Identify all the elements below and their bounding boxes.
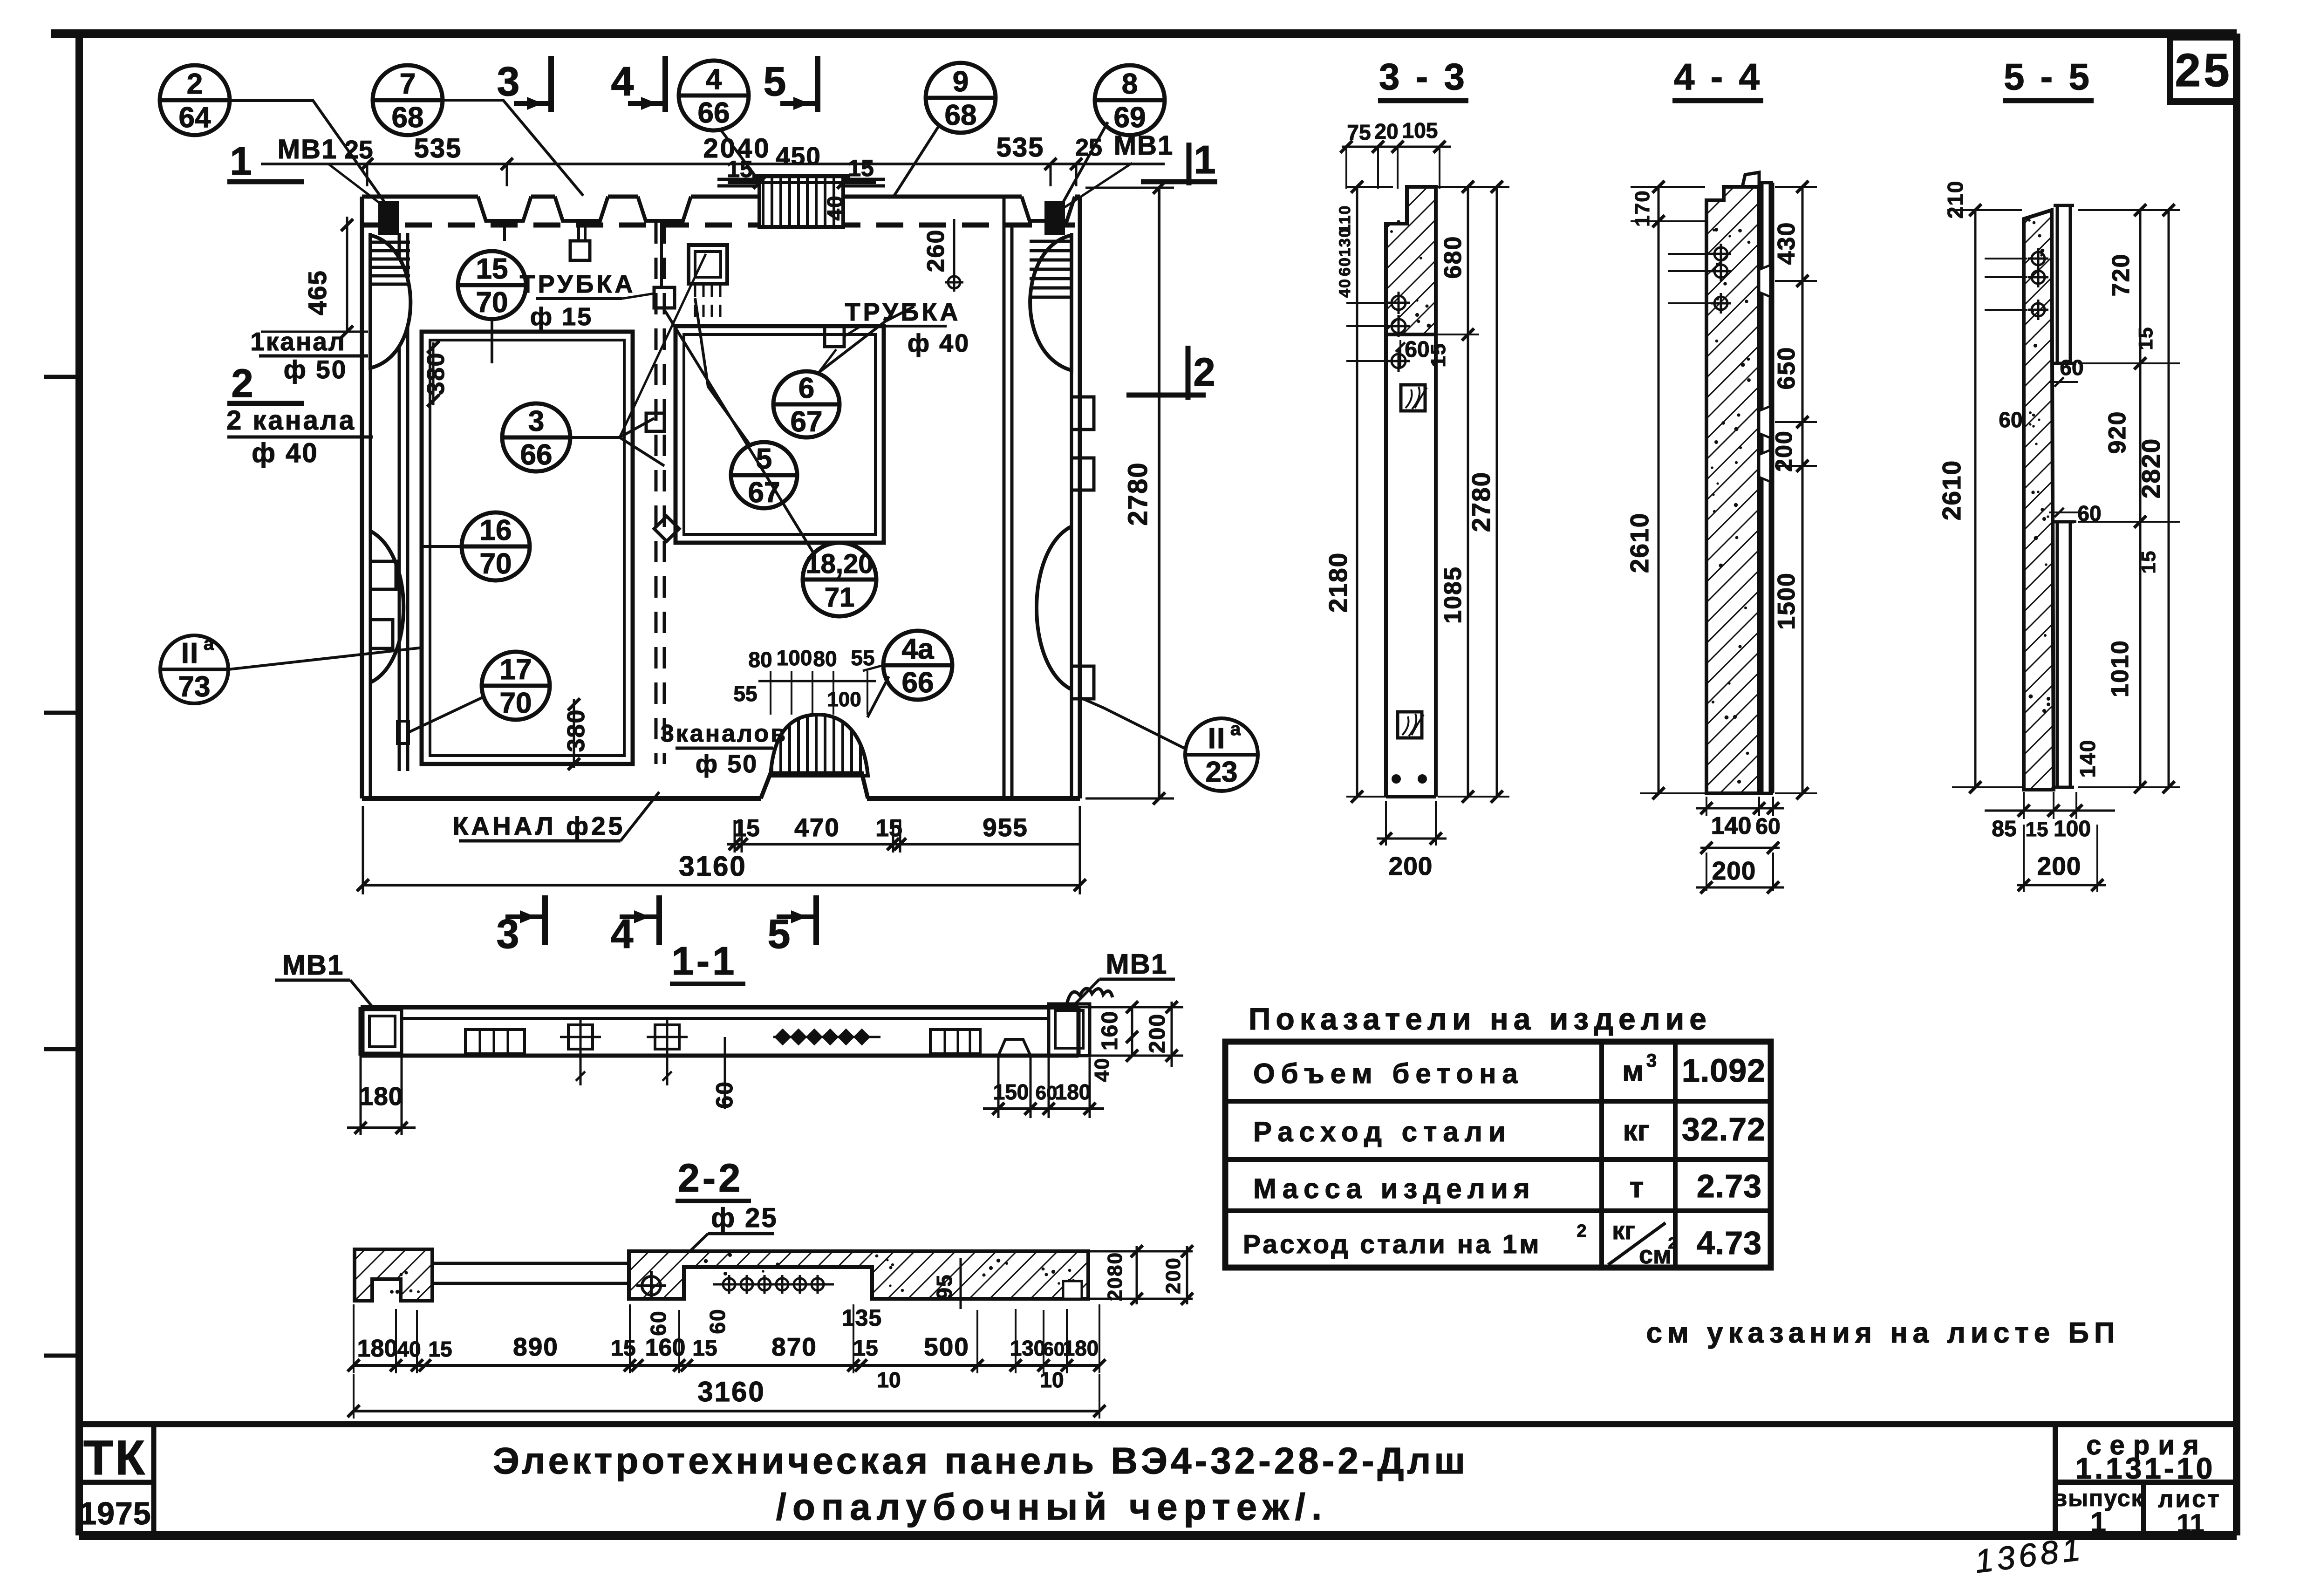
svg-text:1.131-10: 1.131-10 [2075, 1452, 2216, 1485]
svg-text:100: 100 [2054, 817, 2091, 841]
svg-text:15: 15 [733, 815, 760, 842]
svg-text:м: м [1622, 1055, 1644, 1087]
svg-text:см: см [1639, 1241, 1672, 1269]
svg-text:200: 200 [1162, 1257, 1185, 1294]
svg-text:9: 9 [953, 66, 969, 98]
svg-text:535: 535 [996, 132, 1044, 163]
svg-text:11: 11 [2177, 1508, 2204, 1538]
svg-text:2: 2 [1577, 1221, 1586, 1241]
svg-text:60: 60 [646, 1310, 670, 1336]
svg-text:Объем бетона: Объем бетона [1253, 1058, 1524, 1089]
svg-text:68: 68 [945, 99, 977, 131]
svg-text:ф 40: ф 40 [908, 329, 970, 357]
svg-text:10: 10 [877, 1368, 901, 1392]
svg-text:70: 70 [480, 548, 512, 580]
svg-text:40: 40 [397, 1337, 421, 1361]
svg-text:ф 15: ф 15 [530, 303, 593, 331]
svg-text:1.092: 1.092 [1682, 1052, 1766, 1089]
svg-text:130: 130 [1010, 1336, 1046, 1360]
svg-text:Масса изделия: Масса изделия [1253, 1173, 1536, 1204]
svg-text:71: 71 [825, 582, 855, 613]
svg-text:180: 180 [1063, 1336, 1099, 1360]
svg-text:680: 680 [1440, 236, 1467, 279]
svg-text:см указания на листе БП: см указания на листе БП [1646, 1317, 2120, 1349]
svg-text:955: 955 [983, 813, 1028, 842]
svg-text:8: 8 [1122, 68, 1138, 100]
svg-text:465: 465 [303, 270, 332, 315]
svg-text:МВ1: МВ1 [282, 949, 344, 981]
svg-text:70: 70 [476, 286, 508, 319]
svg-text:МВ1: МВ1 [278, 134, 337, 164]
svg-text:10: 10 [1040, 1368, 1064, 1392]
svg-text:15: 15 [1427, 343, 1450, 368]
svg-text:2780: 2780 [1123, 462, 1153, 525]
svg-text:75: 75 [1347, 120, 1371, 144]
svg-text:15: 15 [692, 1336, 717, 1361]
svg-text:Электротехническая панель ВЭ: Электротехническая панель ВЭ4-32-28-2-Дл… [493, 1440, 1468, 1481]
svg-text:200: 200 [1712, 856, 1756, 885]
svg-text:Показатели на изделие: Показатели на изделие [1249, 1002, 1712, 1036]
svg-text:40: 40 [823, 195, 847, 220]
svg-text:а: а [1230, 719, 1241, 739]
svg-text:15: 15 [428, 1337, 452, 1361]
svg-text:3каналов: 3каналов [661, 720, 787, 747]
svg-text:2 канала: 2 канала [226, 405, 356, 436]
svg-text:67: 67 [791, 406, 823, 438]
svg-text:20: 20 [1374, 119, 1398, 143]
svg-text:60: 60 [705, 1308, 730, 1334]
svg-text:Расход стали на 1м: Расход стали на 1м [1243, 1229, 1542, 1259]
svg-text:55: 55 [733, 682, 757, 706]
svg-text:180: 180 [359, 1082, 403, 1111]
svg-text:55: 55 [851, 646, 874, 670]
svg-text:430: 430 [1773, 222, 1800, 265]
svg-text:100: 100 [827, 688, 861, 711]
svg-text:ф 50: ф 50 [284, 355, 348, 384]
svg-text:73: 73 [178, 671, 211, 703]
svg-text:а: а [204, 634, 214, 654]
svg-text:160: 160 [645, 1334, 686, 1361]
svg-text:15: 15 [611, 1336, 635, 1361]
svg-text:II: II [181, 637, 199, 669]
svg-text:470: 470 [794, 813, 840, 842]
svg-text:140: 140 [1711, 812, 1752, 839]
svg-text:25: 25 [344, 135, 373, 164]
svg-text:3 - 3: 3 - 3 [1379, 56, 1467, 97]
svg-text:5: 5 [768, 911, 791, 957]
svg-text:/опалубочный чертеж/.: /опалубочный чертеж/. [776, 1486, 1328, 1528]
svg-text:80: 80 [813, 647, 837, 671]
svg-text:кг: кг [1612, 1217, 1635, 1245]
svg-text:2820: 2820 [2136, 438, 2165, 498]
svg-text:66: 66 [698, 97, 730, 129]
svg-text:2: 2 [1193, 350, 1215, 395]
svg-text:870: 870 [771, 1332, 817, 1361]
svg-text:60: 60 [1999, 408, 2022, 432]
svg-text:1500: 1500 [1773, 572, 1800, 630]
svg-text:5 - 5: 5 - 5 [2004, 56, 2092, 97]
svg-text:200: 200 [1145, 1013, 1170, 1053]
svg-text:1010: 1010 [2107, 640, 2134, 697]
svg-text:4: 4 [706, 63, 722, 95]
svg-text:66: 66 [520, 439, 553, 471]
svg-text:4 - 4: 4 - 4 [1674, 56, 1762, 97]
svg-text:890: 890 [513, 1332, 559, 1361]
svg-text:ф 50: ф 50 [696, 750, 758, 778]
svg-text:60: 60 [2060, 355, 2083, 380]
svg-text:535: 535 [414, 133, 462, 164]
svg-text:5: 5 [764, 58, 786, 104]
svg-text:2.73: 2.73 [1697, 1168, 1762, 1204]
svg-text:720: 720 [2108, 253, 2135, 297]
svg-text:200: 200 [2037, 852, 2082, 880]
svg-text:150: 150 [993, 1080, 1029, 1104]
svg-text:450: 450 [776, 142, 821, 171]
svg-text:40: 40 [1336, 278, 1354, 298]
svg-text:95: 95 [932, 1274, 956, 1299]
svg-text:16: 16 [480, 514, 512, 546]
svg-text:160: 160 [1098, 1010, 1122, 1050]
svg-text:15: 15 [848, 155, 874, 181]
svg-text:2: 2 [231, 361, 253, 406]
svg-text:7: 7 [400, 68, 416, 100]
svg-text:105: 105 [1402, 118, 1438, 143]
svg-text:ТРУБКА: ТРУБКА [845, 298, 961, 326]
svg-text:130: 130 [1336, 228, 1354, 257]
svg-text:32.72: 32.72 [1682, 1111, 1766, 1147]
svg-text:2610: 2610 [1625, 512, 1654, 573]
svg-text:ф 25: ф 25 [711, 1203, 778, 1233]
svg-text:4: 4 [611, 58, 634, 104]
svg-text:2180: 2180 [1324, 552, 1352, 613]
svg-text:3: 3 [1646, 1050, 1657, 1071]
svg-text:15: 15 [875, 815, 902, 842]
svg-text:кг: кг [1623, 1115, 1650, 1147]
svg-text:140: 140 [2075, 739, 2100, 778]
svg-text:180: 180 [357, 1335, 398, 1362]
svg-text:1-1: 1-1 [672, 939, 737, 983]
svg-text:69: 69 [1114, 102, 1146, 134]
svg-text:80: 80 [748, 648, 772, 672]
svg-text:66: 66 [902, 667, 934, 699]
svg-text:2780: 2780 [1467, 471, 1495, 532]
svg-text:1085: 1085 [1440, 566, 1467, 624]
svg-text:85: 85 [1992, 817, 2016, 841]
svg-text:200: 200 [1389, 852, 1433, 880]
svg-text:ф 40: ф 40 [252, 438, 318, 468]
svg-text:3: 3 [528, 405, 544, 437]
svg-text:2: 2 [187, 68, 203, 100]
svg-text:2: 2 [1668, 1235, 1677, 1252]
svg-text:15: 15 [476, 253, 508, 285]
svg-text:100: 100 [777, 646, 812, 670]
svg-text:380: 380 [423, 352, 450, 396]
svg-text:70: 70 [500, 687, 532, 719]
svg-text:4а: 4а [902, 633, 934, 665]
svg-text:т: т [1630, 1172, 1644, 1204]
svg-text:15: 15 [2137, 550, 2159, 574]
svg-text:25: 25 [1075, 134, 1102, 161]
svg-text:2610: 2610 [1937, 460, 1966, 520]
svg-text:180: 180 [1055, 1080, 1091, 1104]
svg-text:6: 6 [799, 372, 814, 404]
svg-text:920: 920 [2104, 411, 2131, 454]
svg-text:650: 650 [1773, 347, 1800, 390]
svg-text:4.73: 4.73 [1697, 1225, 1762, 1261]
svg-text:1: 1 [230, 139, 252, 184]
svg-text:60: 60 [1405, 337, 1429, 362]
svg-text:18,20: 18,20 [805, 549, 873, 579]
svg-text:135: 135 [842, 1305, 882, 1331]
svg-text:17: 17 [500, 654, 532, 686]
svg-text:3160: 3160 [697, 1376, 765, 1407]
svg-text:68: 68 [392, 102, 424, 134]
svg-text:2080: 2080 [1104, 1252, 1126, 1301]
svg-text:60: 60 [1336, 257, 1354, 276]
svg-text:1975: 1975 [79, 1496, 151, 1531]
svg-text:23: 23 [1206, 756, 1238, 788]
svg-text:МВ1: МВ1 [1106, 948, 1168, 980]
svg-text:40: 40 [1091, 1057, 1113, 1082]
svg-text:380: 380 [563, 709, 590, 752]
svg-text:Расход стали: Расход стали [1253, 1116, 1512, 1147]
svg-text:15: 15 [2026, 818, 2048, 841]
svg-text:1: 1 [2090, 1507, 2106, 1538]
svg-text:ТК: ТК [83, 1431, 147, 1485]
svg-text:3160: 3160 [679, 851, 746, 882]
svg-text:3: 3 [497, 911, 519, 957]
svg-text:500: 500 [924, 1332, 969, 1361]
svg-text:60: 60 [1755, 814, 1780, 839]
svg-text:200: 200 [1771, 430, 1797, 471]
svg-text:3: 3 [497, 58, 520, 104]
svg-text:260: 260 [922, 229, 949, 273]
svg-text:II: II [1208, 723, 1226, 755]
svg-text:ТРУБКА: ТРУБКА [520, 270, 636, 298]
svg-text:15: 15 [727, 156, 753, 182]
svg-text:15: 15 [2135, 327, 2157, 350]
svg-text:15: 15 [853, 1336, 878, 1361]
svg-text:64: 64 [179, 102, 211, 134]
svg-text:4: 4 [611, 911, 634, 957]
svg-text:1: 1 [1194, 138, 1215, 182]
svg-text:2-2: 2-2 [678, 1156, 744, 1200]
svg-text:25: 25 [2175, 44, 2232, 96]
svg-text:КАНАЛ ф25: КАНАЛ ф25 [453, 812, 626, 840]
svg-text:60: 60 [1043, 1338, 1065, 1360]
svg-text:60: 60 [1036, 1082, 1058, 1104]
svg-text:МВ1: МВ1 [1114, 130, 1174, 161]
svg-text:210: 210 [1943, 180, 1967, 219]
